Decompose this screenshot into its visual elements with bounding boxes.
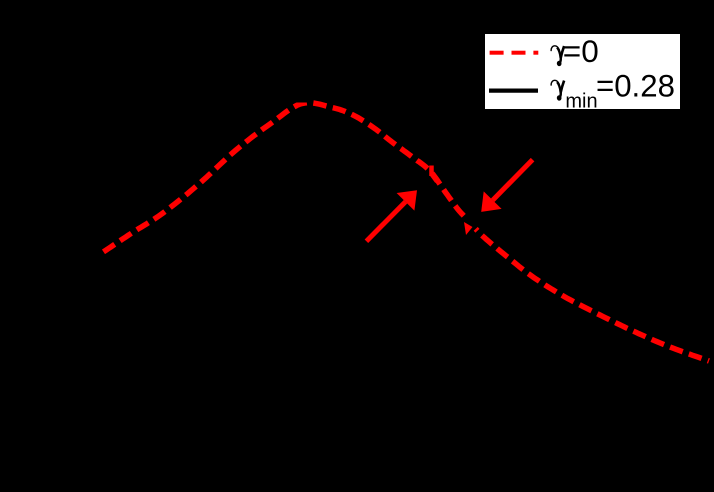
curve gamma=0 (red dashed distribution curve) <box>101 103 709 361</box>
black eraser band over curve (gap before shock triangle) <box>460 213 478 232</box>
shock fragment hook (upward spike near x=431) <box>432 166 438 182</box>
legend black solid sample <box>489 88 538 92</box>
legend label gamma_min=0.28 <box>551 80 564 101</box>
svg-text:=0: =0 <box>563 33 599 69</box>
legend box <box>484 33 681 110</box>
shock fragment triangle (downward spike near x=467) <box>464 222 473 235</box>
arrow 1 (pointing up-right at shock) <box>366 190 417 241</box>
black shave over peak dash (thin dash effect) <box>291 94 308 103</box>
legend label gamma=0 <box>551 46 564 67</box>
arrow 2 (pointing down-left at shock) <box>481 160 532 212</box>
svg-text:=0.28: =0.28 <box>596 68 675 103</box>
svg-text:min: min <box>565 91 597 113</box>
legend red dashed sample <box>490 51 539 55</box>
